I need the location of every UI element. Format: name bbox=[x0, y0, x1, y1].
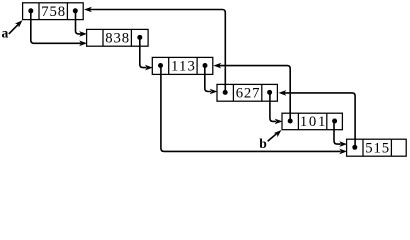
node 113 prev-pointer dot bbox=[158, 63, 163, 68]
node 113 box bbox=[152, 57, 213, 74]
wire 627 left dot up to node 758 right side bbox=[84, 7, 225, 93]
wire 101 left dot up to node 113 right side bbox=[213, 63, 290, 121]
wire 758 right dot to node 838 (upper arrow) bbox=[76, 10, 88, 36]
node 101 next-pointer dot bbox=[332, 119, 337, 124]
wire 113 left dot to node 515 along bottom (lower arrow) bbox=[161, 66, 347, 155]
node 101 box bbox=[282, 113, 342, 130]
svg-text:101: 101 bbox=[300, 114, 326, 130]
wire 627 right dot to node 101 bbox=[270, 92, 283, 124]
node 627 next-pointer dot bbox=[267, 90, 272, 95]
node 627 prev-pointer dot bbox=[223, 90, 228, 95]
node 515 prev-pointer dot bbox=[352, 145, 357, 150]
node 515 box bbox=[347, 139, 407, 156]
wire 758 left dot to node 838 (lower arrow) bbox=[31, 10, 87, 46]
svg-text:838: 838 bbox=[105, 31, 129, 47]
svg-text:515: 515 bbox=[365, 140, 389, 156]
node 758 box bbox=[23, 3, 84, 20]
node 758 next-pointer dot bbox=[73, 8, 78, 13]
pointer b arrow to node 101 bbox=[268, 130, 282, 141]
wire 515 left dot up to node 627 right side bbox=[279, 90, 356, 147]
wire 113 right dot to node 627 bbox=[205, 66, 218, 95]
svg-text:113: 113 bbox=[171, 59, 195, 75]
svg-text:758: 758 bbox=[41, 4, 65, 20]
wire 101 right dot to node 515 (upper arrow) bbox=[334, 121, 347, 147]
svg-text:a: a bbox=[2, 26, 9, 41]
svg-text:b: b bbox=[259, 136, 267, 151]
wire 838 right dot to node 113 bbox=[140, 37, 153, 70]
node 838 box bbox=[87, 29, 149, 46]
pointer a arrow to node 758 bbox=[9, 20, 23, 34]
node 758 prev-pointer dot bbox=[28, 8, 33, 13]
node 101 prev-pointer dot bbox=[288, 119, 293, 124]
svg-text:627: 627 bbox=[236, 86, 260, 102]
node 627 box bbox=[217, 84, 277, 101]
node 838 next-pointer dot bbox=[137, 35, 142, 40]
node 113 next-pointer dot bbox=[203, 63, 208, 68]
